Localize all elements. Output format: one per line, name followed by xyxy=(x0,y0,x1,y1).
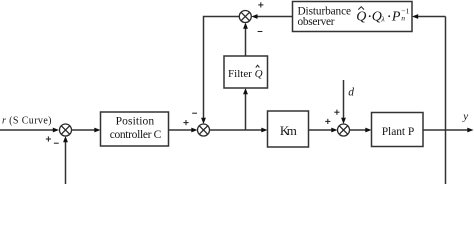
wire DOB output into S3 xyxy=(251,14,292,19)
svg-text:observer: observer xyxy=(298,16,335,28)
node plus sign at S1 xyxy=(46,136,51,141)
wire position controller to summing junction S2 xyxy=(169,128,198,133)
summing junction S3 top xyxy=(239,11,251,23)
wire right vertical feedback from y tap xyxy=(445,17,447,185)
wire DOB correction from S3 down into S2 xyxy=(201,17,239,125)
svg-text:n: n xyxy=(401,13,405,22)
svg-text:Filter Q: Filter Q xyxy=(228,68,263,80)
node DOB formula Q-hat dot Q-lambda dot P-n^-1 xyxy=(356,7,409,25)
block filter Q-hat xyxy=(224,56,268,88)
svg-text:Km: Km xyxy=(280,123,297,138)
node minus sign at S3 xyxy=(258,31,263,33)
summing junction S4 xyxy=(338,124,350,136)
svg-text:Q: Q xyxy=(356,10,366,25)
wire Km to summing junction S4 xyxy=(309,128,338,133)
node minus sign at S1 xyxy=(54,142,59,144)
wire S4 to plant xyxy=(350,128,372,133)
wire y tap into DOB input xyxy=(412,14,446,19)
block disturbance observer xyxy=(293,2,413,32)
svg-text:r (S Curve): r (S Curve) xyxy=(2,115,52,126)
wire d input into S4 xyxy=(341,80,346,124)
wire r input to summing junction S1 xyxy=(0,128,59,133)
node plus sign at S4 top xyxy=(334,110,339,115)
svg-text:λ: λ xyxy=(380,15,385,24)
svg-text:Position: Position xyxy=(116,115,155,127)
node plus sign at S4 left xyxy=(325,119,330,124)
svg-text:d: d xyxy=(348,87,354,99)
wire S1 to position controller xyxy=(72,128,101,133)
summing junction S1 xyxy=(60,124,72,136)
node minus sign at S2 xyxy=(192,112,197,114)
block Km xyxy=(268,111,309,147)
block position controller C xyxy=(101,112,169,146)
wire feedback into S1 from below xyxy=(63,136,68,184)
wire S2 to Km xyxy=(210,128,268,133)
wire filter output up to S3 xyxy=(243,23,248,57)
node plus sign at S3 xyxy=(258,2,263,7)
wire branch up into filter xyxy=(243,88,248,130)
wire plant output to y xyxy=(423,128,474,133)
block plant P xyxy=(372,113,424,147)
svg-text:y: y xyxy=(462,110,468,122)
svg-text:P: P xyxy=(391,10,401,25)
svg-text:Plant P: Plant P xyxy=(382,126,415,138)
svg-text:controller C: controller C xyxy=(110,129,162,141)
node plus sign at S2 xyxy=(183,120,188,125)
summing junction S2 xyxy=(198,124,210,136)
